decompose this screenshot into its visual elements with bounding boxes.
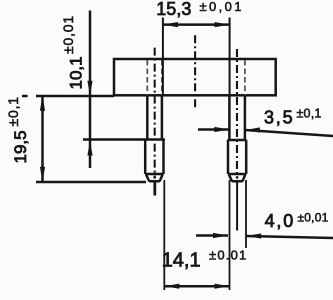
4,0 right-pointing arrowhead (213, 233, 228, 238)
15,3 right arrowhead (215, 22, 230, 27)
left pin wide section (145, 140, 163, 175)
10,1 down arrowhead (87, 81, 92, 96)
dim 14,1 dimension line (164, 285, 229, 288)
svg-text:±0.01: ±0.01 (209, 248, 247, 263)
svg-text:±0,01: ±0,01 (60, 15, 76, 54)
label 14,1 +-0.01 (162, 248, 248, 272)
dim 10,1 dimension line (89, 11, 92, 169)
right pin tip cup (229, 174, 246, 181)
3,5 right-pointing arrowhead (214, 127, 229, 132)
label 4,0 +-0,01 (265, 211, 329, 232)
dim 3,5 arrow lines (198, 130, 333, 137)
label 10,1 +-0,01 rotated (60, 15, 86, 89)
svg-text:19,5: 19,5 (11, 130, 30, 163)
svg-text:15,3: 15,3 (156, 0, 191, 19)
dim 4,0 arrow lines (196, 236, 333, 239)
14,1 left-pointing arrowhead (164, 284, 179, 289)
pin tip extension line (19,5 reference) (36, 181, 146, 184)
right pin hidden edges in body (229, 60, 245, 95)
dim 15,3 dimension line (163, 23, 230, 26)
19,5 up arrowhead (40, 96, 45, 111)
body outline (114, 59, 276, 95)
svg-text:10,1: 10,1 (67, 56, 86, 89)
right pin step line (228, 139, 247, 142)
15,3 left arrowhead (163, 22, 178, 27)
left pin centre line (154, 48, 156, 178)
left pin extension to 14,1 (163, 180, 165, 290)
right pin centre line (236, 49, 238, 178)
svg-text:±0,01: ±0,01 (298, 211, 329, 225)
19,5 down arrowhead (40, 167, 45, 182)
seating plane extension line left (22, 95, 114, 98)
3,5 left-pointing arrowhead (245, 127, 260, 132)
right pin wire stub (236, 182, 238, 231)
arrowheads (40, 22, 261, 289)
svg-text:±0,1: ±0,1 (5, 96, 21, 126)
svg-text:±0,01: ±0,01 (200, 0, 244, 14)
central axis centre line (194, 35, 196, 110)
label 19,5 +-0,1 rotated (5, 96, 30, 163)
svg-text:4,0: 4,0 (265, 211, 295, 231)
svg-text:14,1: 14,1 (162, 250, 201, 272)
right pin narrow section (229, 95, 245, 140)
left pin wire stub (153, 182, 156, 196)
4,0 left-pointing arrowhead (246, 233, 261, 238)
left pin narrow section (147, 95, 162, 139)
dim 19,5 dimension line (41, 96, 44, 182)
left pin tip cup (146, 174, 163, 181)
svg-text:±0,1: ±0,1 (297, 107, 322, 121)
step extension line (10,1 reference) (83, 138, 165, 141)
svg-text:3,5: 3,5 (264, 108, 294, 128)
dim 15,3 extension lines (163, 18, 230, 97)
left pin cup centre dot (153, 176, 155, 178)
left pin hidden edges in body (147, 60, 162, 95)
right pin wide section (228, 140, 246, 174)
label 15,3 +-0,01 (156, 0, 244, 19)
label 3,5 +-0,1 (264, 107, 322, 128)
14,1 right-pointing arrowhead (215, 284, 230, 289)
10,1 up arrowhead (87, 141, 92, 156)
right pin cup centre dot (236, 176, 238, 178)
right pin extension lines below (230, 180, 247, 290)
